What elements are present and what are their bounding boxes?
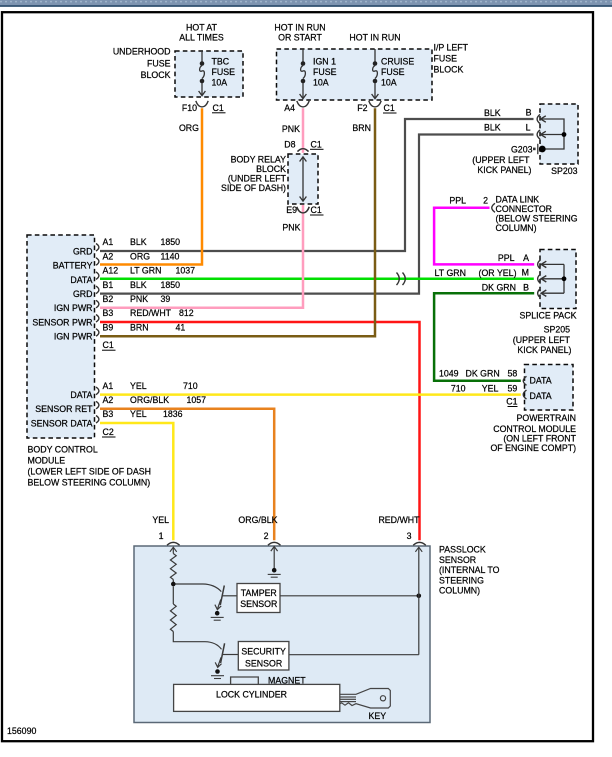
collector to tamper box bbox=[222, 595, 237, 597]
wire B3 YEL 1836 (to passlock pin 1) bbox=[100, 423, 173, 540]
ground G203 bbox=[539, 146, 546, 153]
svg-text:PNK: PNK bbox=[130, 294, 148, 304]
row label B1 BLK 1850 bbox=[103, 280, 181, 290]
connector cup F2 C1 bbox=[369, 101, 381, 107]
svg-text:DATA: DATA bbox=[530, 376, 552, 386]
wire B2 PNK 39 (from relay block E9) bbox=[100, 205, 303, 308]
row label A1 BLK 1850 bbox=[103, 237, 181, 247]
svg-text:156090: 156090 bbox=[7, 726, 36, 736]
svg-text:(UPPER LEFT: (UPPER LEFT bbox=[513, 335, 571, 345]
svg-text:B2: B2 bbox=[103, 294, 114, 304]
svg-text:B3: B3 bbox=[103, 409, 114, 419]
svg-text:CONTROL MODULE: CONTROL MODULE bbox=[493, 424, 576, 434]
wire PPL (DLC to SP205 A) bbox=[434, 208, 534, 265]
resistor R2 bbox=[172, 586, 174, 604]
wire base tamper bbox=[176, 584, 222, 592]
labels PPL 2 DATA LINK CONNECTOR (BELOW STEERING COLUMN) bbox=[449, 195, 577, 234]
label F2 / C1 bbox=[357, 103, 395, 113]
svg-text:59: 59 bbox=[508, 383, 518, 393]
connector cap pin 1 bbox=[167, 542, 180, 545]
wire B3 RED/WHT 812 (to passlock pin 3) bbox=[100, 322, 420, 540]
label HOT AT ALL TIMES bbox=[179, 23, 224, 43]
svg-text:C1: C1 bbox=[384, 103, 395, 113]
svg-text:BLOCK: BLOCK bbox=[141, 70, 171, 80]
labels BLK B / BLK L bbox=[484, 108, 532, 133]
svg-text:812: 812 bbox=[179, 308, 194, 318]
svg-text:B: B bbox=[523, 282, 529, 292]
svg-text:A1: A1 bbox=[103, 381, 114, 391]
label PASSLOCK SENSOR (INTERNAL TO STEERING COLUMN) bbox=[439, 545, 500, 596]
svg-text:I/P LEFT: I/P LEFT bbox=[434, 42, 469, 52]
label BODY RELAY BLOCK (UNDER LEFT SIDE OF DASH) bbox=[221, 155, 287, 194]
transistor tamper contact bar bbox=[220, 586, 224, 606]
wire A2 ORG 1140 (from TBC fuse) bbox=[100, 108, 202, 264]
connector cup E9 C1 bbox=[297, 207, 309, 213]
label UNDERHOOD FUSE BLOCK bbox=[113, 47, 171, 81]
svg-text:FUSE: FUSE bbox=[381, 67, 405, 77]
svg-text:BRN: BRN bbox=[130, 322, 149, 332]
row label B3 YEL 1836 bbox=[103, 409, 183, 419]
pin 1 entry arrow bbox=[170, 547, 177, 553]
row label A1 YEL 710 bbox=[103, 381, 198, 391]
BCM pin names C1 group bbox=[32, 246, 92, 341]
emitter arrow to ground (security) bbox=[215, 657, 221, 667]
wire DK GRN 1049 (SP205 B to PCM 58) bbox=[434, 293, 534, 381]
svg-text:OF ENGINE COMPT): OF ENGINE COMPT) bbox=[490, 443, 576, 453]
svg-text:BLOCK: BLOCK bbox=[434, 65, 464, 75]
svg-text:B1: B1 bbox=[103, 280, 114, 290]
svg-text:G203: G203 bbox=[511, 145, 533, 155]
connector cup A4 bbox=[297, 101, 309, 107]
wire tamper output to pin 3 bbox=[280, 595, 419, 597]
svg-text:FUSE: FUSE bbox=[434, 54, 458, 64]
row label 710 YEL 59 bbox=[451, 383, 517, 393]
SP203 pin arc B bbox=[537, 114, 546, 123]
svg-text:10A: 10A bbox=[381, 78, 397, 88]
label SPLICE PACK SP205 (UPPER LEFT KICK PANEL) bbox=[513, 311, 577, 355]
svg-text:BRN: BRN bbox=[352, 123, 371, 133]
svg-text:1057: 1057 bbox=[187, 395, 207, 405]
wire A1 BLK 1850 (to SP203 B) bbox=[100, 119, 534, 251]
fuse TBC FUSE 10A bbox=[199, 51, 206, 96]
svg-text:YEL: YEL bbox=[482, 383, 499, 393]
svg-text:BLK: BLK bbox=[484, 123, 501, 133]
svg-text:SENSOR: SENSOR bbox=[245, 659, 282, 669]
svg-text:DK GRN: DK GRN bbox=[482, 282, 516, 292]
svg-text:SECURITY: SECURITY bbox=[241, 647, 286, 657]
label SECURITY SENSOR bbox=[241, 647, 286, 669]
row label A12 LT GRN 1037 bbox=[103, 266, 196, 276]
svg-text:UNDERHOOD: UNDERHOOD bbox=[113, 47, 171, 57]
label RED/WHT / 3 bbox=[378, 515, 420, 541]
SP203 pin arc L bbox=[537, 130, 546, 139]
svg-text:ORG: ORG bbox=[130, 251, 150, 261]
svg-text:COLUMN): COLUMN) bbox=[439, 586, 480, 596]
BCM pin arcs C2 group bbox=[96, 387, 99, 423]
svg-text:A: A bbox=[523, 253, 529, 263]
BCM pin arcs C1 group bbox=[96, 244, 99, 337]
connector cup E9 overlay bbox=[297, 207, 309, 213]
wire B9 BRN 41 (from CRUISE fuse F2) bbox=[100, 108, 375, 336]
connector cap pin 2 bbox=[268, 542, 281, 545]
svg-text:YEL: YEL bbox=[130, 409, 147, 419]
label IGN 1 FUSE 10A bbox=[313, 56, 337, 87]
svg-text:MODULE: MODULE bbox=[28, 455, 66, 465]
svg-text:TBC: TBC bbox=[212, 56, 230, 66]
pin 3 entry arrow and line bbox=[415, 547, 422, 655]
label HOT IN RUN OR START bbox=[274, 23, 325, 43]
svg-text:LOCK CYLINDER: LOCK CYLINDER bbox=[216, 690, 287, 700]
lock cylinder box bbox=[174, 684, 340, 711]
svg-text:C1: C1 bbox=[103, 340, 114, 350]
svg-text:B: B bbox=[526, 108, 532, 118]
svg-text:SENSOR: SENSOR bbox=[240, 599, 277, 609]
svg-text:C2: C2 bbox=[103, 427, 114, 437]
BCM pin names C2 group bbox=[31, 390, 93, 428]
svg-text:IGN 1: IGN 1 bbox=[313, 56, 336, 66]
svg-text:KICK PANEL): KICK PANEL) bbox=[477, 165, 531, 175]
svg-text:IGN PWR: IGN PWR bbox=[54, 332, 93, 342]
passlock sensor box bbox=[134, 546, 430, 723]
svg-text:FUSE: FUSE bbox=[313, 67, 337, 77]
svg-text:DATA: DATA bbox=[70, 275, 92, 285]
svg-text:RED/WHT: RED/WHT bbox=[378, 515, 420, 525]
row label B3 RED/WHT 812 bbox=[103, 308, 194, 318]
svg-text:TAMPER: TAMPER bbox=[241, 588, 277, 598]
svg-text:BODY RELAY: BODY RELAY bbox=[231, 155, 287, 165]
svg-text:BLK: BLK bbox=[130, 280, 147, 290]
svg-text:BATTERY: BATTERY bbox=[53, 261, 93, 271]
svg-text:39: 39 bbox=[161, 294, 171, 304]
svg-text:SENSOR DATA: SENSOR DATA bbox=[31, 418, 93, 428]
fuse CRUISE FUSE 10A bbox=[372, 49, 379, 99]
svg-text:(UPPER LEFT: (UPPER LEFT bbox=[472, 155, 530, 165]
SP205 pin arc M bbox=[538, 274, 547, 283]
row label 1049 DK GRN 58 bbox=[439, 368, 517, 378]
svg-text:F10: F10 bbox=[182, 103, 197, 113]
svg-text:PNK: PNK bbox=[282, 223, 300, 233]
row label B9 BRN 41 bbox=[103, 322, 186, 332]
svg-text:E9: E9 bbox=[286, 205, 297, 215]
svg-text:SP203: SP203 bbox=[551, 166, 578, 176]
svg-text:1850: 1850 bbox=[161, 237, 181, 247]
connector cap D8 overlay bbox=[298, 149, 309, 152]
wire A12 LT GRN 1037 (to SP205 M) bbox=[100, 278, 534, 281]
svg-text:STEERING: STEERING bbox=[439, 575, 484, 585]
svg-text:SIDE OF DASH): SIDE OF DASH) bbox=[221, 183, 286, 193]
security sensor box bbox=[238, 642, 289, 671]
svg-text:A12: A12 bbox=[103, 266, 119, 276]
SP205 pin arc A bbox=[538, 260, 547, 269]
svg-text:D8: D8 bbox=[284, 139, 295, 149]
labels PPL A / LT GRN (OR YEL) M / DK GRN B bbox=[435, 253, 530, 292]
svg-text:BODY CONTROL: BODY CONTROL bbox=[28, 444, 98, 454]
emitter arrow to ground (tamper) bbox=[215, 600, 221, 610]
data link connector arc bbox=[492, 203, 495, 212]
svg-text:(ON LEFT FRONT: (ON LEFT FRONT bbox=[503, 433, 576, 443]
svg-text:BLK: BLK bbox=[484, 108, 501, 118]
transistor security contact bar bbox=[221, 643, 225, 663]
window top bar bbox=[0, 0, 612, 7]
svg-text:A2: A2 bbox=[103, 251, 114, 261]
wire pin 3 to security sensor bbox=[289, 654, 419, 656]
row label A2 ORG/BLK 1057 bbox=[103, 395, 207, 405]
label (UPPER LEFT KICK PANEL) SP203 bbox=[472, 155, 577, 176]
splice pack SP203 box bbox=[540, 104, 578, 164]
row label B2 PNK 39 bbox=[103, 294, 171, 304]
PCM pin arc 58 bbox=[523, 376, 526, 385]
SP205 internal bus bbox=[542, 264, 565, 293]
magnet symbol bbox=[231, 677, 259, 684]
svg-text:DK GRN: DK GRN bbox=[466, 368, 500, 378]
relay internal arrowed wire bbox=[300, 157, 307, 201]
svg-text:B3: B3 bbox=[103, 308, 114, 318]
svg-text:58: 58 bbox=[508, 368, 518, 378]
label F10 / C1 bbox=[182, 103, 224, 113]
PCM pin arc 59 bbox=[523, 390, 526, 399]
svg-text:A4: A4 bbox=[284, 103, 295, 113]
label BODY CONTROL MODULE (LOWER LEFT SIDE OF DASH BELOW STEERING COLUMN) bbox=[28, 444, 152, 487]
svg-text:FUSE: FUSE bbox=[212, 67, 236, 77]
svg-text:SENSOR: SENSOR bbox=[439, 555, 476, 565]
svg-text:L: L bbox=[526, 123, 531, 133]
svg-text:10A: 10A bbox=[212, 78, 228, 88]
svg-text:1049: 1049 bbox=[439, 368, 459, 378]
fuse IGN 1 FUSE 10A bbox=[300, 49, 307, 99]
wire A2 ORG/BLK 1057 (to passlock pin 2) bbox=[100, 409, 274, 541]
svg-text:2: 2 bbox=[483, 195, 488, 205]
SP205 pin arc B bbox=[538, 289, 547, 298]
svg-text:2: 2 bbox=[264, 531, 269, 541]
svg-text:HOT IN RUN: HOT IN RUN bbox=[349, 32, 400, 42]
svg-text:1850: 1850 bbox=[161, 280, 181, 290]
svg-text:BLK: BLK bbox=[130, 237, 147, 247]
svg-text:LT GRN: LT GRN bbox=[130, 266, 161, 276]
label TBC FUSE 10A bbox=[212, 56, 236, 87]
svg-text:OR START: OR START bbox=[278, 32, 322, 42]
junction node pin1 divider bbox=[172, 580, 174, 585]
svg-text:SPLICE PACK: SPLICE PACK bbox=[519, 311, 576, 321]
label POWERTRAIN CONTROL MODULE (ON LEFT FRONT OF ENGINE COMPT) bbox=[490, 413, 576, 453]
svg-text:DATA: DATA bbox=[70, 390, 92, 400]
svg-text:BLOCK: BLOCK bbox=[256, 164, 286, 174]
svg-text:A2: A2 bbox=[103, 395, 114, 405]
connector cap pin 3 bbox=[413, 542, 426, 545]
wire A1 YEL 710 (to PCM 59) bbox=[100, 393, 521, 396]
wire PNK fuse IGN1 A4 to D8 bbox=[302, 108, 305, 153]
svg-text:M: M bbox=[522, 268, 529, 278]
resistor R1 bbox=[170, 554, 176, 580]
svg-text:(BELOW STEERING: (BELOW STEERING bbox=[496, 214, 578, 224]
svg-text:RED/WHT: RED/WHT bbox=[130, 308, 172, 318]
label I/P LEFT FUSE BLOCK bbox=[434, 42, 469, 74]
label ORG/BLK / 2 bbox=[238, 515, 277, 541]
pin 2 entry arrow to ground bbox=[271, 547, 278, 569]
svg-text:BELOW STEERING COLUMN): BELOW STEERING COLUMN) bbox=[28, 478, 151, 488]
svg-text:F2: F2 bbox=[357, 103, 367, 113]
collector to security box bbox=[223, 654, 239, 656]
svg-text:710: 710 bbox=[451, 383, 466, 393]
svg-text:B9: B9 bbox=[103, 322, 114, 332]
svg-text:710: 710 bbox=[183, 381, 198, 391]
row label A2 ORG 1140 bbox=[103, 251, 180, 261]
svg-text:KEY: KEY bbox=[369, 711, 387, 721]
svg-text:C1: C1 bbox=[311, 139, 322, 149]
svg-text:3: 3 bbox=[407, 531, 412, 541]
svg-text:CONNECTOR: CONNECTOR bbox=[496, 204, 553, 214]
svg-text:1037: 1037 bbox=[176, 266, 196, 276]
svg-text:ORG: ORG bbox=[179, 123, 199, 133]
body relay block box bbox=[288, 154, 318, 204]
svg-text:DATA LINK: DATA LINK bbox=[496, 195, 540, 205]
svg-text:SENSOR PWR: SENSOR PWR bbox=[32, 317, 92, 327]
svg-text:1140: 1140 bbox=[161, 251, 180, 261]
svg-text:YEL: YEL bbox=[130, 381, 147, 391]
svg-text:COLUMN): COLUMN) bbox=[496, 223, 537, 233]
wire B1 BLK 1850 (to SP203 L) bbox=[100, 135, 534, 294]
svg-text:PPL: PPL bbox=[498, 253, 515, 263]
key symbol bbox=[340, 689, 391, 709]
svg-text:C1: C1 bbox=[213, 103, 224, 113]
svg-text:(OR YEL): (OR YEL) bbox=[479, 268, 517, 278]
powertrain control module box bbox=[525, 365, 574, 411]
svg-text:HOT AT: HOT AT bbox=[186, 23, 218, 33]
body control module box bbox=[27, 235, 95, 438]
connector cup F10 C1 bbox=[196, 101, 208, 107]
svg-text:(UNDER LEFT: (UNDER LEFT bbox=[228, 174, 287, 184]
svg-text:FUSE: FUSE bbox=[147, 58, 171, 68]
svg-text:ORG/BLK: ORG/BLK bbox=[130, 395, 169, 405]
underhood fuse block box bbox=[175, 51, 243, 97]
connector cap D8 C1 bbox=[298, 149, 309, 152]
labels DATA DATA inside PCM bbox=[530, 376, 552, 401]
SP203 internal bus bbox=[541, 119, 564, 149]
label TAMPER SENSOR bbox=[240, 588, 277, 609]
splice pack SP205 box bbox=[540, 250, 576, 309]
svg-text:HOT IN RUN: HOT IN RUN bbox=[274, 23, 325, 33]
svg-text:(LOWER LEFT SIDE OF DASH: (LOWER LEFT SIDE OF DASH bbox=[28, 466, 152, 476]
junction node on pin 3 line bbox=[417, 594, 422, 599]
svg-text:ORG/BLK: ORG/BLK bbox=[238, 515, 277, 525]
svg-text:ALL TIMES: ALL TIMES bbox=[179, 32, 224, 42]
svg-text:PNK: PNK bbox=[282, 124, 300, 134]
svg-text:PPL: PPL bbox=[449, 195, 466, 205]
svg-text:DATA: DATA bbox=[530, 391, 552, 401]
svg-text:SENSOR RET: SENSOR RET bbox=[35, 404, 93, 414]
svg-text:PASSLOCK: PASSLOCK bbox=[439, 545, 486, 555]
svg-text:C1: C1 bbox=[506, 397, 517, 407]
svg-text:YEL: YEL bbox=[152, 515, 169, 525]
tamper sensor box bbox=[237, 584, 280, 613]
svg-text:IGN PWR: IGN PWR bbox=[54, 303, 93, 313]
svg-text:41: 41 bbox=[176, 322, 186, 332]
svg-text:10A: 10A bbox=[313, 78, 329, 88]
svg-text:KICK PANEL): KICK PANEL) bbox=[517, 345, 571, 355]
svg-text:POWERTRAIN: POWERTRAIN bbox=[517, 413, 576, 423]
inline break symbol on LT GRN bbox=[397, 273, 406, 286]
svg-text:SP205: SP205 bbox=[544, 325, 571, 335]
svg-text:A1: A1 bbox=[103, 237, 114, 247]
svg-text:LT GRN: LT GRN bbox=[435, 268, 466, 278]
I/P left fuse block box bbox=[277, 49, 433, 100]
wire base security bbox=[173, 632, 221, 650]
svg-text:1: 1 bbox=[159, 531, 164, 541]
svg-text:GRD: GRD bbox=[73, 246, 93, 256]
label YEL / 1 bbox=[152, 515, 169, 541]
label CRUISE FUSE 10A bbox=[381, 56, 414, 87]
svg-text:CRUISE: CRUISE bbox=[381, 56, 414, 66]
svg-text:GRD: GRD bbox=[73, 289, 93, 299]
svg-text:C1: C1 bbox=[311, 205, 322, 215]
svg-text:1836: 1836 bbox=[163, 409, 183, 419]
svg-text:(INTERNAL TO: (INTERNAL TO bbox=[439, 565, 500, 575]
